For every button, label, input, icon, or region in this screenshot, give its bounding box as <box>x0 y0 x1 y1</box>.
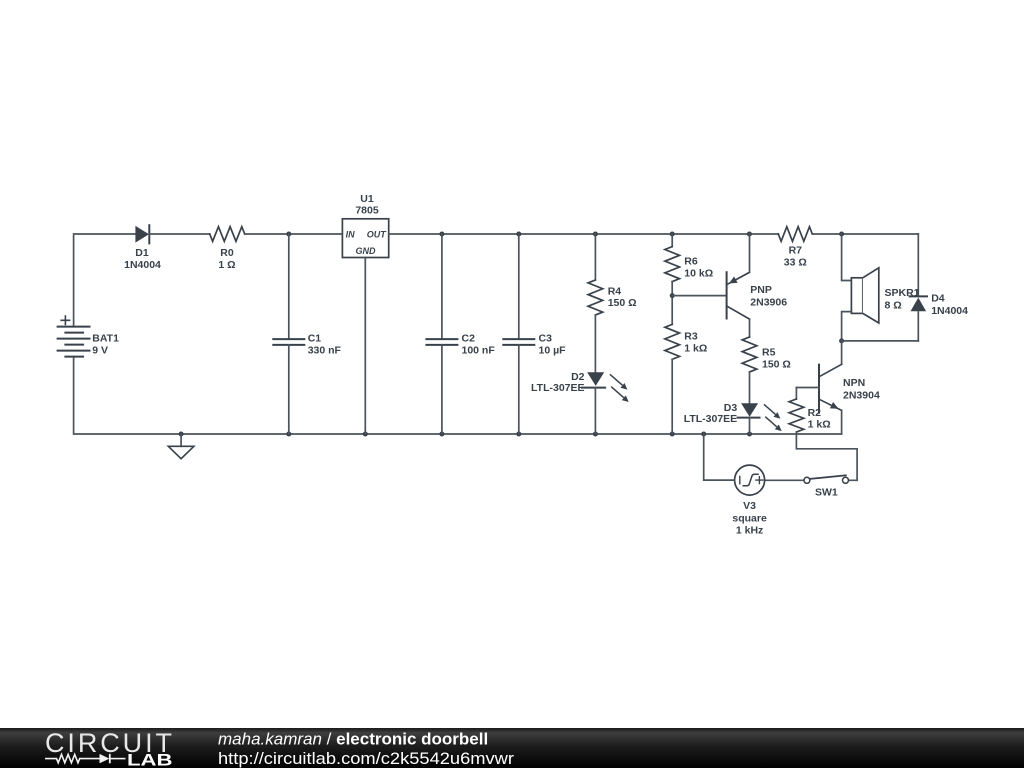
wire bottom rail jog to SW1 <box>796 434 857 480</box>
svg-text:SW1: SW1 <box>815 486 838 498</box>
svg-text:V3: V3 <box>743 500 756 512</box>
resistor R3 <box>665 324 707 359</box>
node R4 top junction <box>593 232 598 237</box>
svg-text:R2: R2 <box>808 407 822 419</box>
wire battery positive to top rail and to diode D1 <box>74 234 136 327</box>
wire NPN base to R2 <box>796 387 819 389</box>
node speaker bottom junction <box>839 338 844 343</box>
svg-text:1 kΩ: 1 kΩ <box>808 419 831 431</box>
footer title text <box>218 730 514 768</box>
node R6 top junction <box>670 232 675 237</box>
svg-text:150 Ω: 150 Ω <box>608 297 637 309</box>
svg-text:C2: C2 <box>462 333 476 345</box>
svg-text:http://circuitlab.com/c2k5542u: http://circuitlab.com/c2k5542u6mvwr <box>218 749 514 768</box>
IC U1 7805 voltage regulator <box>342 193 388 258</box>
wire R6 to R3 <box>671 282 673 325</box>
wire R2 to bottom rail <box>795 432 797 434</box>
svg-text:1 kΩ: 1 kΩ <box>684 342 707 354</box>
wire mid node to NPN collector <box>841 341 843 364</box>
wire battery negative to bottom rail across to NPN emitter <box>74 357 842 434</box>
svg-text:C3: C3 <box>539 333 553 345</box>
wire C2 to bottom rail <box>441 345 443 434</box>
wire PNP emitter to top rail <box>749 234 751 272</box>
svg-text:R0: R0 <box>220 247 234 259</box>
wire top rail to R4 <box>594 234 596 280</box>
wire D4 to mid line <box>917 311 919 341</box>
LED D3 <box>684 402 782 431</box>
svg-text:10 kΩ: 10 kΩ <box>684 267 713 279</box>
capacitor C3 <box>503 333 566 357</box>
svg-text:OUT: OUT <box>367 230 388 240</box>
transistor PNP 2N3906 <box>727 272 788 319</box>
svg-text:LTL-307EE: LTL-307EE <box>684 413 737 425</box>
svg-text:PNP: PNP <box>750 284 772 296</box>
resistor R2 <box>789 399 831 432</box>
svg-text:1N4004: 1N4004 <box>931 305 968 317</box>
wire NPN emitter to bottom rail <box>841 410 843 434</box>
footer bar <box>0 728 1024 768</box>
LED D2 <box>531 371 629 402</box>
node C3 bottom junction <box>516 432 521 437</box>
node PNP emitter top junction <box>747 232 752 237</box>
wire top rail to C3 <box>518 234 520 339</box>
node D3 bottom junction <box>747 432 752 437</box>
svg-text:330 nF: 330 nF <box>308 344 342 356</box>
node U1 GND bottom junction <box>363 432 368 437</box>
diode D1 <box>124 225 161 271</box>
voltage source V3 <box>732 465 767 536</box>
svg-text:10 µF: 10 µF <box>539 344 567 356</box>
svg-text:D1: D1 <box>135 247 149 259</box>
wire D1 to R0 <box>149 233 209 235</box>
resistor R0 <box>210 227 245 271</box>
svg-text:LTL-307EE: LTL-307EE <box>531 382 584 394</box>
battery BAT1 <box>58 316 120 357</box>
svg-text:1 kHz: 1 kHz <box>736 524 763 536</box>
svg-text:150 Ω: 150 Ω <box>762 358 791 370</box>
transistor NPN 2N3904 <box>819 364 880 412</box>
wire D2 to bottom rail <box>594 388 596 434</box>
wire V3 to bottom rail <box>704 434 735 480</box>
svg-text:R3: R3 <box>684 330 698 342</box>
svg-text:LAB: LAB <box>127 751 173 768</box>
wire SW1 to V3 <box>765 479 804 481</box>
wire R2 top lead <box>795 388 797 400</box>
wire R3 to bottom rail <box>671 359 673 434</box>
wire top rail to speaker <box>842 234 852 281</box>
svg-text:maha.kamran / electronic doorb: maha.kamran / electronic doorbell <box>218 730 488 749</box>
node D2 bottom junction <box>593 432 598 437</box>
svg-text:IN: IN <box>346 230 356 240</box>
node C2 bottom junction <box>439 432 444 437</box>
wire mid node to D4 <box>842 340 919 342</box>
wire PNP collector to R5 <box>749 319 751 337</box>
wire top rail to C1 <box>288 234 290 339</box>
node C3 top junction <box>516 232 521 237</box>
speaker SPKR1 <box>851 268 919 323</box>
wire top rail to R6 <box>671 234 673 247</box>
resistor R6 <box>665 247 713 282</box>
svg-text:R7: R7 <box>789 244 803 256</box>
wire top rail to C2 <box>441 234 443 339</box>
node speaker top junction <box>839 232 844 237</box>
wire speaker to mid node <box>842 312 852 341</box>
svg-text:2N3904: 2N3904 <box>843 389 880 401</box>
wire D3 to bottom rail <box>749 418 751 434</box>
node C1 bottom junction <box>286 432 291 437</box>
wire C1 to bottom rail <box>288 345 290 434</box>
svg-text:square: square <box>732 512 767 524</box>
resistor R4 <box>588 280 636 315</box>
node R3 bottom junction <box>670 432 675 437</box>
wire R4 to D2 <box>594 315 596 372</box>
capacitor C1 <box>273 333 341 357</box>
svg-text:BAT1: BAT1 <box>92 333 119 345</box>
wire R5 to D3 <box>749 372 751 403</box>
wire U1 GND pin to bottom rail <box>364 258 366 435</box>
svg-text:1 Ω: 1 Ω <box>218 259 235 271</box>
ground <box>168 432 194 459</box>
switch SW1 <box>804 475 849 498</box>
svg-text:7805: 7805 <box>355 205 379 217</box>
svg-text:33 Ω: 33 Ω <box>784 256 807 268</box>
capacitor C2 <box>426 333 495 357</box>
diode D4 <box>910 292 969 317</box>
wire C3 to bottom rail <box>518 345 520 434</box>
resistor R7 <box>778 227 812 269</box>
svg-text:R4: R4 <box>608 285 622 297</box>
svg-text:100 nF: 100 nF <box>462 344 496 356</box>
node C1 top junction <box>286 232 291 237</box>
wire R7 to top right corner <box>812 233 918 235</box>
svg-text:1N4004: 1N4004 <box>124 259 161 271</box>
svg-text:U1: U1 <box>360 193 374 205</box>
svg-text:NPN: NPN <box>843 377 865 389</box>
svg-text:GND: GND <box>356 246 377 256</box>
wire base node to PNP base <box>672 295 726 297</box>
svg-text:D4: D4 <box>931 292 945 304</box>
wire right edge down to D4 <box>917 234 919 296</box>
svg-text:R5: R5 <box>762 347 776 359</box>
wire U1 OUT along top rail to R7 <box>389 233 779 235</box>
svg-text:9 V: 9 V <box>92 345 108 357</box>
wire R0 to U1 IN with node at C1 branch <box>245 233 343 235</box>
node C2 top junction <box>439 232 444 237</box>
node V3 bottom junction <box>701 432 706 437</box>
svg-text:2N3906: 2N3906 <box>750 297 787 309</box>
node R6 R3 base junction <box>670 293 675 298</box>
svg-text:SPKR1: SPKR1 <box>885 287 920 299</box>
svg-text:8 Ω: 8 Ω <box>885 299 902 311</box>
svg-text:C1: C1 <box>308 333 322 345</box>
resistor R5 <box>742 337 791 372</box>
svg-text:R6: R6 <box>684 256 698 268</box>
CircuitLab logo <box>45 728 173 768</box>
